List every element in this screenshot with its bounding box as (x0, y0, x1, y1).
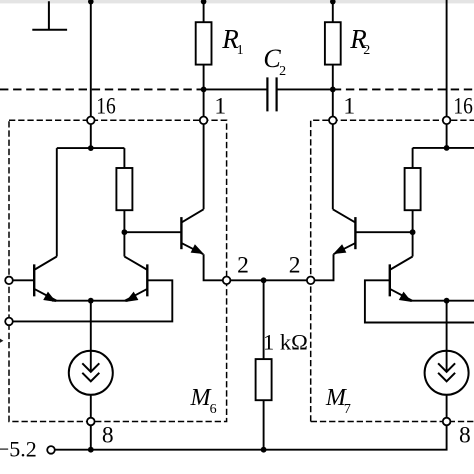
wire: source to pin8 M6 (90, 395, 92, 450)
opamp box M6 dashed border (9, 120, 227, 421)
svg-text:2: 2 (279, 64, 286, 79)
wire: source to pin8 M7 (446, 395, 448, 422)
junction dot Q3 base (122, 229, 128, 235)
terminal circle -5.2 (47, 446, 55, 454)
svg-text:2: 2 (363, 43, 370, 58)
wire: tail down to source M7 (446, 301, 448, 351)
pin circle 16R (443, 117, 451, 125)
wire: Q1 collector vertical (56, 148, 58, 256)
wire: -5.2 V bottom rail (55, 422, 447, 450)
M7 internals (356, 148, 474, 422)
junction dot Q3b base (410, 229, 416, 235)
wire: collector rail M7 (413, 147, 474, 149)
resistor R2 (325, 22, 341, 64)
wire: pin16 left vertical (90, 1, 92, 148)
resistor load M6 (116, 168, 132, 210)
pin circle 2L (223, 277, 231, 285)
dashed net boundary line (0, 88, 474, 90)
svg-text:1 kΩ: 1 kΩ (263, 330, 308, 355)
wire: Q1 base from pin (9, 279, 34, 281)
pin circle in- M6 (5, 318, 13, 326)
wire: 1k resistor branch (263, 280, 265, 449)
svg-text:2: 2 (289, 253, 301, 279)
wire: Q3 base wire (124, 231, 181, 233)
wire: load resistor branch M7 (412, 148, 414, 232)
wire: Q2 base loop (9, 280, 172, 321)
pin circle 1L (200, 117, 208, 125)
opamp box M7 dashed border (311, 120, 474, 421)
junction dot node 1L (201, 87, 207, 93)
top rail band (cropped) (0, 0, 474, 3)
resistor 1 kOhm (256, 359, 272, 400)
current source I1 (69, 351, 113, 395)
svg-text:16: 16 (96, 93, 116, 119)
wire: pin2 interconnect (227, 279, 311, 281)
pin circle 2R (307, 277, 315, 285)
transistor Q2 (124, 257, 147, 302)
node VCC tap 1 (88, 0, 94, 4)
junction dot M6 rail (88, 145, 94, 151)
svg-text:7: 7 (344, 402, 351, 417)
wire: pin16 right vertical (446, 0, 448, 148)
pin circle 8R (443, 418, 451, 426)
wire: emitter tail M7 (410, 300, 474, 302)
svg-text:−5.2: −5.2 (0, 437, 37, 462)
wire: Q4 collector vertical (412, 232, 414, 256)
pin circle 8L (87, 418, 95, 426)
ground (32, 1, 67, 30)
resistor load M7 (405, 168, 421, 210)
wire: tail down to source M6 (90, 301, 92, 351)
svg-text:1: 1 (237, 43, 244, 58)
junction dot rail M6 (88, 447, 94, 453)
node VCC tap 2 (201, 0, 207, 4)
transistor Q3 (181, 209, 226, 280)
wire: R2 branch vertical (332, 1, 334, 209)
svg-text:8: 8 (459, 422, 471, 448)
junction dot tail M7 (444, 298, 450, 304)
junction dot rail 1k (261, 447, 267, 453)
wire: R1 branch vertical (203, 1, 205, 209)
node VCC tap 3 (330, 0, 336, 4)
junction dot pin2 net (261, 277, 267, 283)
transistor Q4 (390, 257, 413, 302)
pin circle 16L (87, 117, 95, 125)
junction dot node 1R (330, 87, 336, 93)
svg-text:1: 1 (343, 93, 355, 119)
svg-text:6: 6 (210, 402, 217, 417)
svg-text:16: 16 (453, 93, 473, 119)
wire: C2 horizontal (204, 88, 333, 90)
junction dot tail M6 (88, 298, 94, 304)
svg-text:1: 1 (214, 93, 226, 119)
wire: collector rail M6 (57, 147, 125, 149)
transistor Q3b (311, 209, 356, 280)
capacitor C2 (267, 77, 276, 111)
transistor Q1 (34, 257, 57, 302)
wire: Q3b base wire (356, 231, 413, 233)
pin circle 1R (329, 117, 337, 125)
resistor R1 (196, 22, 212, 64)
pin circle in+ M6 (5, 277, 13, 285)
svg-text:2: 2 (237, 253, 249, 279)
cropped arrow fragment left edge (0, 339, 3, 343)
wire: load resistor branch M6 (123, 148, 125, 232)
wire: emitter tail M6 (52, 300, 128, 302)
wire: Q4 base loop (365, 280, 474, 322)
svg-text:8: 8 (102, 422, 114, 448)
wire: Q2 collector vertical (123, 232, 125, 256)
current source I2 (425, 351, 469, 395)
junction dot M7 rail (444, 145, 450, 151)
M6 internals (9, 148, 181, 450)
